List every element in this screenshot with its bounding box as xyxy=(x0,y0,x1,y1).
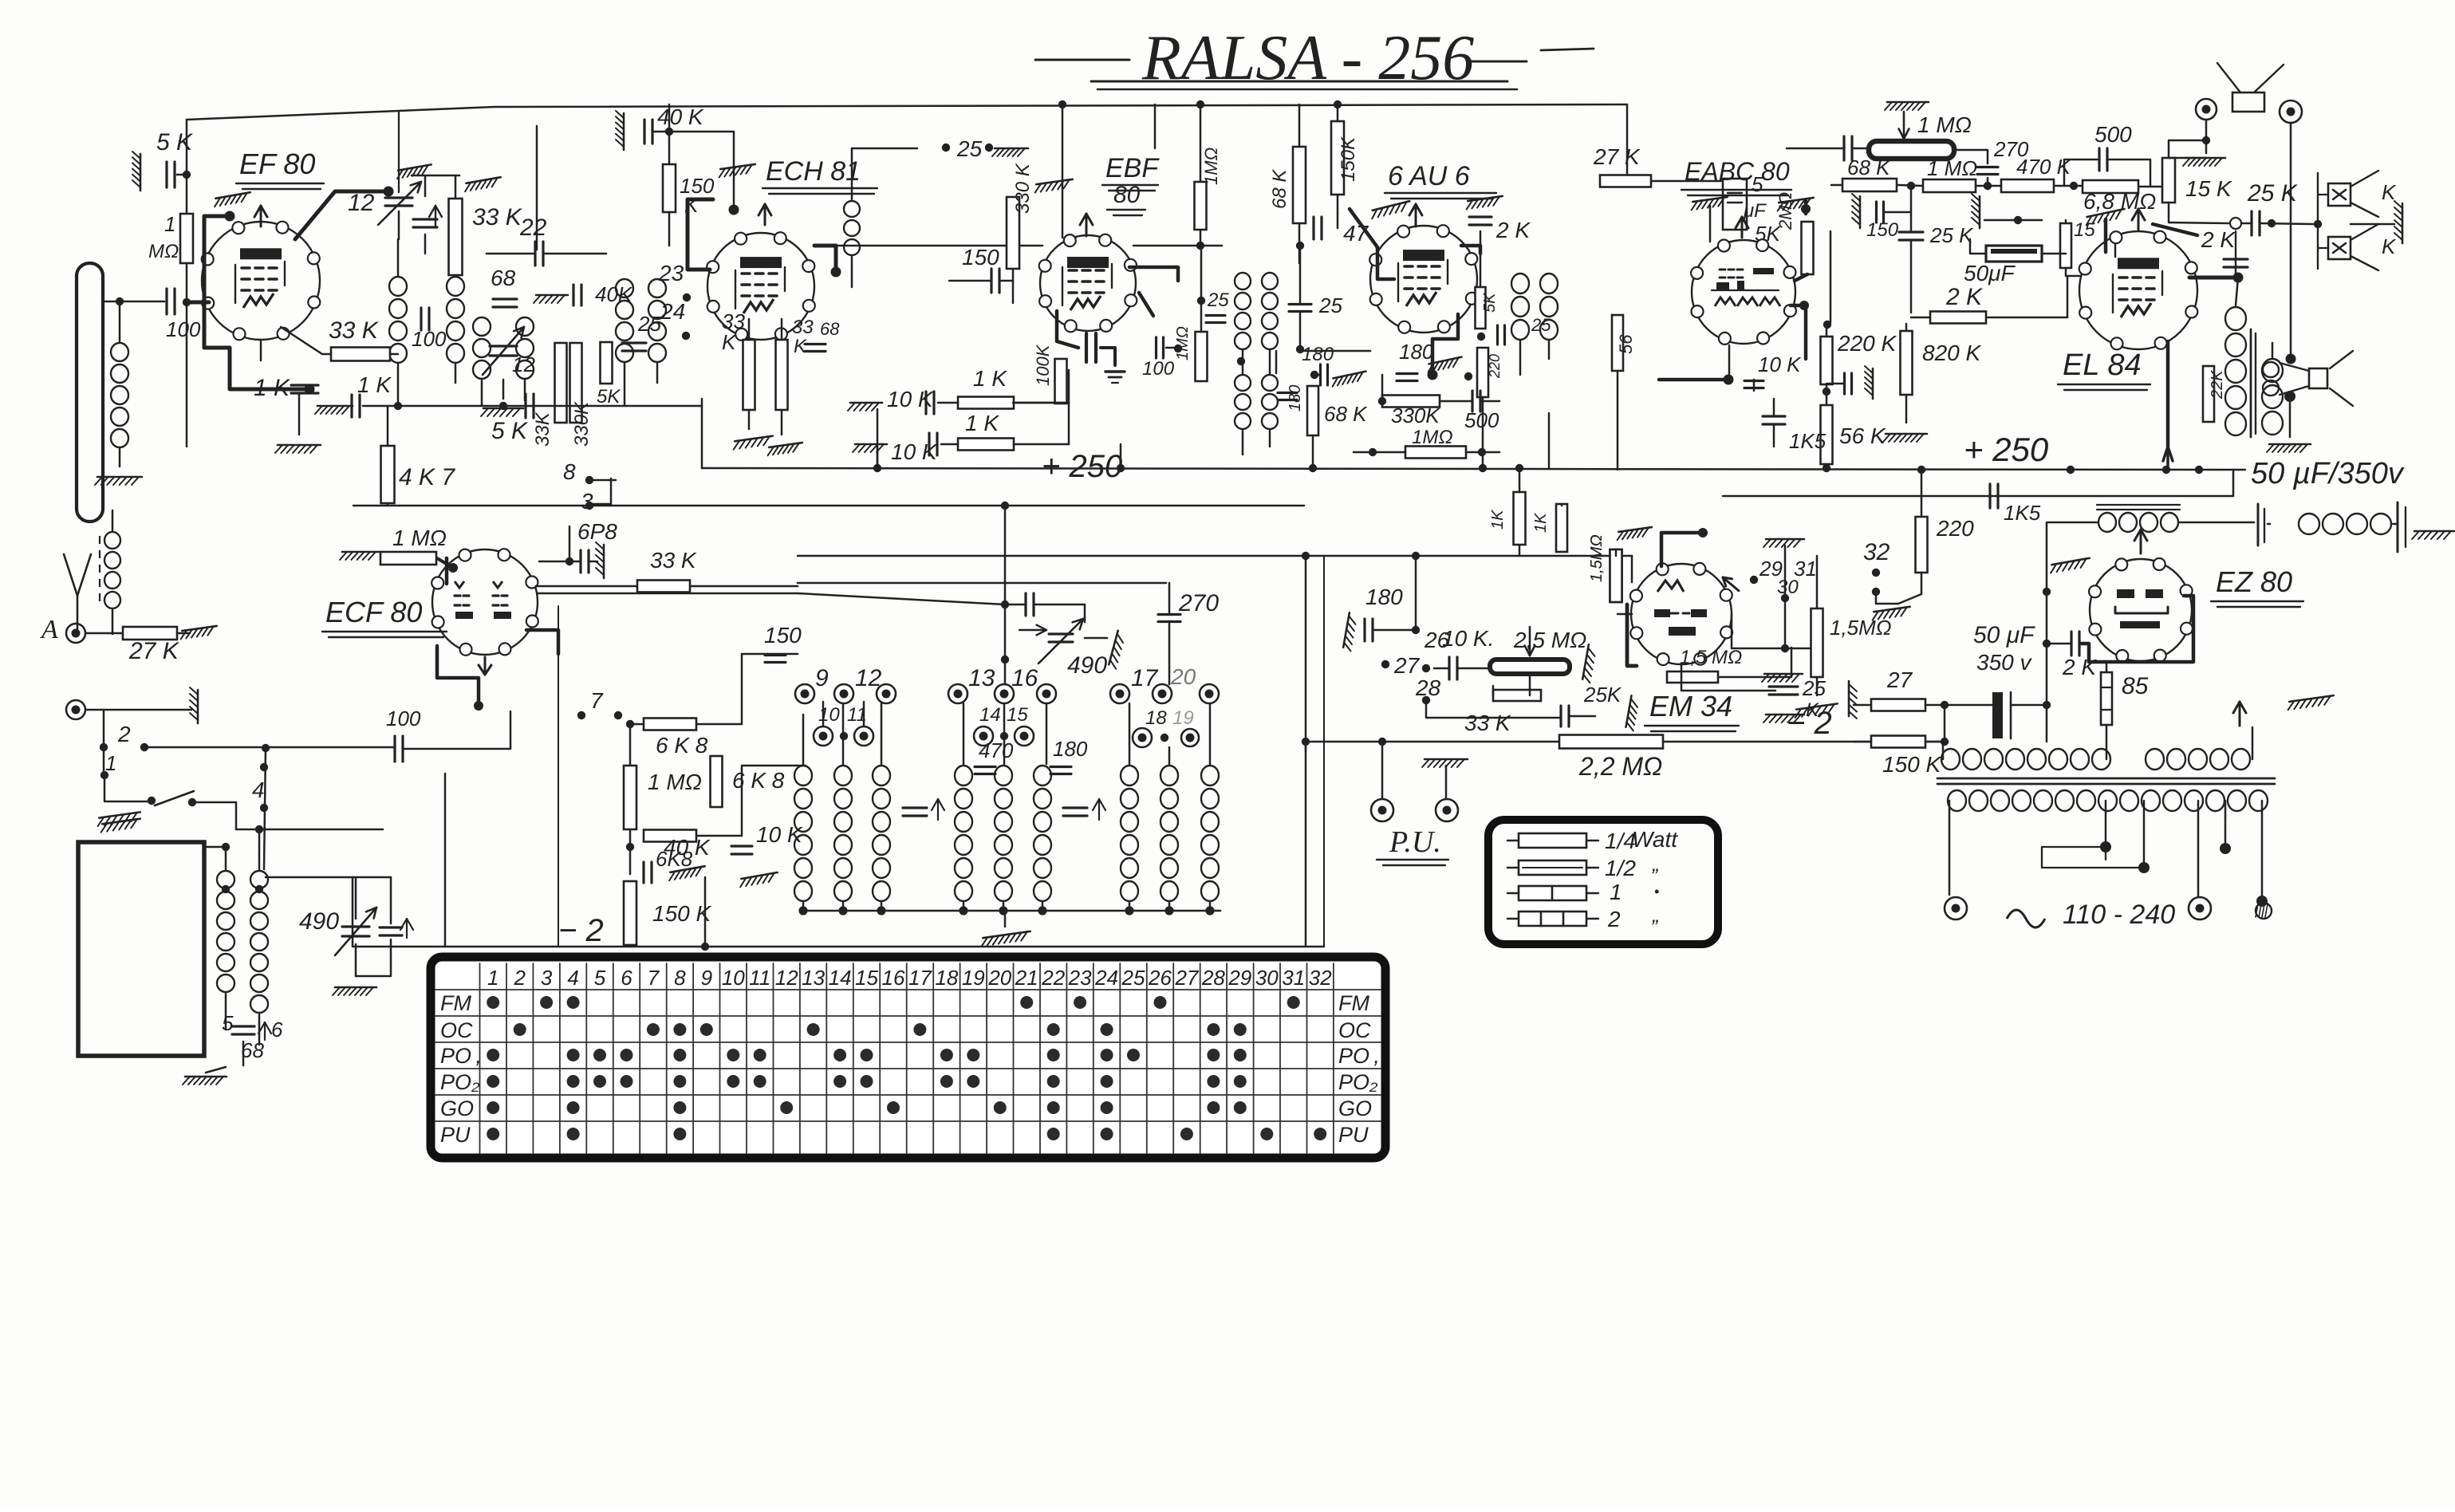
svg-text:820 K: 820 K xyxy=(1922,341,1981,365)
svg-text:2 K: 2 K xyxy=(2201,227,2236,252)
svg-text:15 K: 15 K xyxy=(2185,176,2232,201)
svg-text:180: 180 xyxy=(1053,737,1088,761)
svg-text:1: 1 xyxy=(105,751,116,775)
svg-text:150K: 150K xyxy=(1338,136,1359,182)
svg-text:9: 9 xyxy=(701,966,712,990)
svg-text:330K: 330K xyxy=(1391,404,1440,427)
svg-text:68 K: 68 K xyxy=(1324,402,1368,426)
svg-text:1K: 1K xyxy=(1532,512,1550,533)
svg-text:22: 22 xyxy=(1041,966,1065,990)
svg-text:21: 21 xyxy=(1015,966,1038,990)
svg-text:23: 23 xyxy=(1068,966,1092,990)
svg-text:27: 27 xyxy=(1886,667,1913,692)
svg-text:20: 20 xyxy=(1170,664,1196,689)
svg-text:FM: FM xyxy=(440,991,471,1015)
svg-text:23: 23 xyxy=(658,261,684,285)
svg-text:270: 270 xyxy=(1178,590,1219,616)
svg-text:100K: 100K xyxy=(1033,344,1053,386)
svg-text:2 K: 2 K xyxy=(2062,655,2097,679)
svg-text:27 K: 27 K xyxy=(128,638,180,664)
svg-text:150: 150 xyxy=(1866,219,1899,241)
svg-text:1: 1 xyxy=(487,966,498,990)
svg-text:68: 68 xyxy=(820,319,840,339)
svg-text:1 MΩ: 1 MΩ xyxy=(648,770,702,794)
svg-text:GO: GO xyxy=(440,1097,474,1120)
svg-text:1MΩ: 1MΩ xyxy=(1174,326,1192,360)
svg-text:1 K: 1 K xyxy=(254,375,291,401)
svg-text:+ 250: + 250 xyxy=(1964,431,2049,468)
svg-text:PU: PU xyxy=(440,1123,471,1147)
svg-text:18: 18 xyxy=(935,966,958,990)
svg-text:EABC 80: EABC 80 xyxy=(1685,157,1790,186)
svg-text:33K: 33K xyxy=(532,411,554,447)
svg-text:12: 12 xyxy=(512,352,535,376)
svg-text:1K5: 1K5 xyxy=(2004,501,2041,525)
svg-text:K: K xyxy=(684,193,699,217)
svg-text:1 K: 1 K xyxy=(357,372,392,397)
svg-text:7: 7 xyxy=(590,688,604,713)
svg-text:50μF: 50μF xyxy=(1964,261,2016,285)
svg-text:490: 490 xyxy=(299,908,339,935)
svg-text:17: 17 xyxy=(1131,665,1159,691)
svg-text:MΩ: MΩ xyxy=(148,241,179,262)
svg-text:100: 100 xyxy=(1142,358,1175,380)
svg-text:FM: FM xyxy=(1338,991,1369,1015)
svg-text:+ 250: + 250 xyxy=(1042,449,1122,484)
svg-text:1 MΩ: 1 MΩ xyxy=(392,526,447,550)
svg-text:ECF 80: ECF 80 xyxy=(325,596,422,628)
svg-text:180: 180 xyxy=(1287,385,1304,411)
svg-text:16: 16 xyxy=(882,966,905,990)
svg-text:25: 25 xyxy=(1802,676,1826,700)
svg-text:1MΩ: 1MΩ xyxy=(1412,427,1453,448)
svg-text:68 K: 68 K xyxy=(1847,156,1891,179)
svg-text:33 K: 33 K xyxy=(1464,711,1511,735)
svg-text:470: 470 xyxy=(979,738,1014,762)
svg-text:GO: GO xyxy=(1338,1097,1372,1120)
svg-text:10 K: 10 K xyxy=(891,439,938,464)
svg-text:33 K: 33 K xyxy=(329,317,380,344)
svg-text:6 K 8: 6 K 8 xyxy=(732,768,785,793)
svg-text:22K: 22K xyxy=(2209,369,2226,400)
svg-text:25: 25 xyxy=(1121,966,1145,990)
svg-text:19: 19 xyxy=(962,966,985,990)
svg-text:4 K 7: 4 K 7 xyxy=(399,464,455,490)
svg-text:EL 84: EL 84 xyxy=(2063,348,2142,382)
svg-text:5: 5 xyxy=(594,966,606,990)
svg-text:2: 2 xyxy=(117,722,131,746)
svg-text:50 μF: 50 μF xyxy=(1973,622,2035,648)
svg-text:3: 3 xyxy=(581,489,593,514)
svg-text:6: 6 xyxy=(621,966,632,990)
svg-text:2: 2 xyxy=(513,966,526,990)
svg-text:12: 12 xyxy=(775,966,798,990)
svg-text:14: 14 xyxy=(829,966,852,990)
svg-text:12: 12 xyxy=(855,665,882,691)
svg-text:1 K: 1 K xyxy=(973,366,1007,391)
svg-text:ECH 81: ECH 81 xyxy=(766,156,861,187)
svg-text:40 K: 40 K xyxy=(664,835,711,860)
svg-text:13: 13 xyxy=(802,966,825,990)
svg-text:350 v: 350 v xyxy=(1976,650,2032,675)
svg-text:EZ 80: EZ 80 xyxy=(2216,565,2292,598)
svg-text:10: 10 xyxy=(818,704,840,726)
svg-text:12: 12 xyxy=(348,190,375,216)
svg-text:10 K: 10 K xyxy=(1758,352,1802,376)
svg-text:EBF: EBF xyxy=(1105,153,1160,183)
svg-text:16: 16 xyxy=(1011,665,1038,691)
svg-text:1: 1 xyxy=(1610,880,1622,904)
svg-text:30: 30 xyxy=(1777,577,1799,598)
svg-text:40K: 40K xyxy=(595,282,633,306)
svg-text:P.U.: P.U. xyxy=(1389,825,1441,859)
svg-text:25: 25 xyxy=(1207,289,1229,311)
svg-text:15: 15 xyxy=(1007,704,1028,726)
svg-text:100: 100 xyxy=(166,317,201,341)
svg-text:56 K: 56 K xyxy=(1839,423,1886,448)
svg-text:110 - 240: 110 - 240 xyxy=(2063,900,2175,930)
svg-text:20: 20 xyxy=(987,966,1011,990)
svg-text:OC: OC xyxy=(1338,1018,1371,1042)
svg-text:A: A xyxy=(40,615,58,644)
svg-text:K: K xyxy=(722,330,737,354)
svg-text:180: 180 xyxy=(1302,344,1334,365)
svg-text:6 K 8: 6 K 8 xyxy=(656,733,708,758)
svg-text:2,5 MΩ: 2,5 MΩ xyxy=(1513,628,1586,652)
svg-text:1 MΩ: 1 MΩ xyxy=(1917,112,1972,137)
svg-text:2 K: 2 K xyxy=(1945,284,1984,310)
svg-text:10: 10 xyxy=(722,966,745,990)
svg-text:1: 1 xyxy=(164,212,175,236)
svg-text:1,5MΩ: 1,5MΩ xyxy=(1830,616,1892,640)
svg-text:100: 100 xyxy=(412,327,447,351)
svg-text:330 K: 330 K xyxy=(1012,163,1034,214)
svg-text:4: 4 xyxy=(252,778,265,802)
svg-text:5 K: 5 K xyxy=(156,129,194,156)
svg-text:8: 8 xyxy=(674,966,686,990)
svg-text:22: 22 xyxy=(519,215,547,241)
svg-text:26: 26 xyxy=(1148,966,1172,990)
svg-text:PO ,: PO , xyxy=(440,1044,482,1068)
svg-text:PO ,: PO , xyxy=(1338,1044,1380,1068)
svg-text:1K: 1K xyxy=(1489,509,1507,530)
svg-text:100: 100 xyxy=(386,707,421,730)
svg-text:19: 19 xyxy=(1172,707,1194,729)
svg-text:27: 27 xyxy=(1393,653,1421,678)
svg-text:27: 27 xyxy=(1174,966,1199,990)
svg-text:68: 68 xyxy=(241,1038,264,1062)
svg-text:6: 6 xyxy=(271,1018,283,1041)
svg-text:1K5: 1K5 xyxy=(1789,429,1826,453)
svg-text:68: 68 xyxy=(491,266,516,290)
svg-text:30: 30 xyxy=(1255,966,1279,990)
svg-text:EF 80: EF 80 xyxy=(239,148,315,180)
svg-text:56: 56 xyxy=(1616,334,1636,354)
svg-text:150 K: 150 K xyxy=(652,901,711,926)
svg-text:RALSA - 256: RALSA - 256 xyxy=(1141,23,1474,93)
svg-text:6 AU 6: 6 AU 6 xyxy=(1388,161,1470,191)
svg-text:220: 220 xyxy=(1936,516,1974,541)
svg-text:K: K xyxy=(1806,699,1819,721)
svg-text:500: 500 xyxy=(2094,122,2132,147)
svg-text:13: 13 xyxy=(968,665,995,691)
svg-text:50 µF/350v: 50 µF/350v xyxy=(2251,457,2405,490)
svg-text:25: 25 xyxy=(1531,315,1551,335)
svg-text:29: 29 xyxy=(1227,966,1251,990)
svg-text:150: 150 xyxy=(764,623,802,648)
svg-text:1,5 MΩ: 1,5 MΩ xyxy=(1680,647,1742,668)
svg-text:7: 7 xyxy=(648,966,660,990)
svg-text:80: 80 xyxy=(1113,182,1141,208)
svg-text:PO₂: PO₂ xyxy=(1338,1070,1378,1094)
svg-text:1MΩ: 1MΩ xyxy=(1201,148,1221,185)
svg-text:PU: PU xyxy=(1338,1123,1369,1147)
svg-text:14: 14 xyxy=(979,704,1001,726)
svg-text:5 K: 5 K xyxy=(491,418,529,444)
svg-text:11: 11 xyxy=(749,966,770,990)
svg-text:1/2: 1/2 xyxy=(1605,856,1636,880)
svg-text:2: 2 xyxy=(1607,907,1621,931)
svg-text:•: • xyxy=(1654,884,1659,900)
svg-text:Watt: Watt xyxy=(1632,827,1678,852)
svg-text:1 MΩ: 1 MΩ xyxy=(1927,156,1977,180)
svg-text:330K: 330K xyxy=(571,401,593,447)
svg-text:4: 4 xyxy=(567,966,578,990)
svg-text:33 K: 33 K xyxy=(472,204,523,230)
svg-text:OC: OC xyxy=(440,1018,473,1042)
svg-text:85: 85 xyxy=(2122,673,2149,699)
svg-text:17: 17 xyxy=(908,966,932,990)
svg-text:33: 33 xyxy=(792,317,814,338)
svg-text:18: 18 xyxy=(1145,707,1167,729)
svg-text:33 K: 33 K xyxy=(650,548,697,573)
svg-text:15: 15 xyxy=(855,966,878,990)
svg-text:25K: 25K xyxy=(1583,683,1622,707)
svg-text:150: 150 xyxy=(962,245,999,270)
svg-text:2 K: 2 K xyxy=(1495,218,1531,242)
svg-text:1 K: 1 K xyxy=(965,411,999,435)
svg-text:3: 3 xyxy=(541,966,553,990)
svg-text:32: 32 xyxy=(1309,966,1332,990)
svg-text:490: 490 xyxy=(1067,652,1107,679)
svg-text:− 2: − 2 xyxy=(558,913,604,948)
svg-text:40 K: 40 K xyxy=(657,104,704,129)
svg-text:EM 34: EM 34 xyxy=(1649,690,1732,723)
svg-text:5K: 5K xyxy=(1481,292,1499,313)
svg-text:25 K: 25 K xyxy=(1929,223,1974,247)
svg-text:1,5MΩ: 1,5MΩ xyxy=(1588,534,1606,582)
svg-text:„: „ xyxy=(1652,903,1660,927)
svg-text:32: 32 xyxy=(1863,539,1890,565)
svg-text:5K: 5K xyxy=(597,386,621,408)
svg-text:24: 24 xyxy=(660,299,685,324)
svg-text:500: 500 xyxy=(1464,408,1499,432)
svg-text:150 K: 150 K xyxy=(1882,752,1941,777)
svg-text:220: 220 xyxy=(1487,354,1503,379)
svg-text:„: „ xyxy=(1652,852,1660,876)
svg-text:6P8: 6P8 xyxy=(577,519,617,544)
svg-text:PO₂: PO₂ xyxy=(440,1070,480,1094)
svg-text:180: 180 xyxy=(1365,585,1403,609)
svg-text:5: 5 xyxy=(222,1011,234,1035)
svg-text:25: 25 xyxy=(1318,293,1342,317)
svg-text:K: K xyxy=(794,336,807,357)
svg-text:2,2 MΩ: 2,2 MΩ xyxy=(1578,752,1662,781)
svg-text:31: 31 xyxy=(1282,966,1305,990)
svg-text:8: 8 xyxy=(563,459,576,484)
svg-text:2MΩ: 2MΩ xyxy=(1775,192,1795,230)
svg-text:9: 9 xyxy=(815,665,829,691)
svg-text:27 K: 27 K xyxy=(1593,144,1641,169)
svg-text:24: 24 xyxy=(1094,966,1118,990)
svg-text:28: 28 xyxy=(1201,966,1225,990)
svg-text:K: K xyxy=(2382,234,2397,258)
svg-text:68 K: 68 K xyxy=(1269,169,1291,209)
svg-text:25: 25 xyxy=(956,136,983,161)
svg-text:220 K: 220 K xyxy=(1837,331,1897,356)
svg-text:180: 180 xyxy=(1399,340,1434,364)
svg-text:10 K.: 10 K. xyxy=(1442,626,1494,651)
